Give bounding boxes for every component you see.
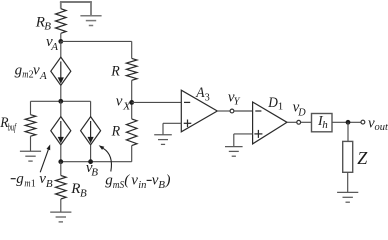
svg-text:v: v [131, 172, 138, 188]
svg-text:3: 3 [205, 93, 210, 104]
svg-text:B: B [91, 167, 98, 179]
svg-text:R: R [111, 124, 120, 140]
svg-text:buf: buf [8, 123, 17, 134]
svg-text:v: v [33, 62, 40, 78]
svg-text:B: B [158, 179, 165, 191]
svg-text:Z: Z [357, 148, 368, 168]
svg-text:R: R [70, 181, 80, 197]
svg-text:): ) [165, 172, 171, 188]
svg-text:D: D [297, 106, 305, 118]
svg-text:B: B [46, 178, 53, 190]
svg-text:in: in [138, 179, 147, 191]
svg-text:A: A [50, 41, 58, 53]
svg-text:B: B [80, 187, 87, 199]
svg-text:X: X [122, 100, 132, 112]
svg-text:m: m [22, 69, 28, 81]
svg-text:R: R [110, 64, 119, 80]
svg-text:m: m [24, 177, 30, 189]
svg-text:A: A [39, 70, 47, 82]
svg-text:mS: mS [113, 179, 125, 191]
svg-text:h: h [322, 119, 328, 131]
svg-text:1: 1 [278, 100, 284, 112]
svg-text:2: 2 [29, 70, 34, 81]
svg-text:v: v [116, 94, 123, 110]
svg-text:D: D [267, 95, 278, 111]
svg-text:1: 1 [31, 178, 36, 189]
svg-text:B: B [44, 20, 51, 32]
svg-text:out: out [375, 121, 388, 133]
svg-text:g: g [16, 171, 24, 187]
